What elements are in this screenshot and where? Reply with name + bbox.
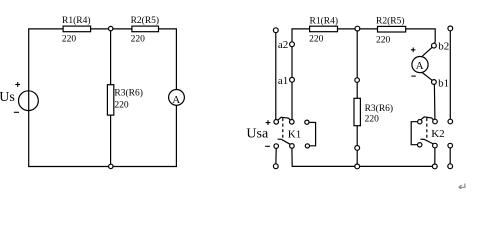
- svg-text:b2: b2: [438, 40, 449, 52]
- svg-text:R1(R4): R1(R4): [310, 15, 339, 26]
- svg-text:220: 220: [376, 36, 391, 46]
- svg-text:R3(R6): R3(R6): [114, 87, 142, 98]
- svg-text:R2(R5): R2(R5): [376, 16, 405, 27]
- svg-text:Usa: Usa: [246, 127, 269, 142]
- svg-text:a2: a2: [278, 39, 288, 51]
- svg-text:R3(R6): R3(R6): [365, 103, 394, 114]
- svg-text:220: 220: [365, 115, 380, 125]
- svg-text:K2: K2: [431, 128, 444, 140]
- svg-text:A: A: [416, 60, 424, 72]
- svg-text:a1: a1: [278, 75, 288, 87]
- svg-text:220: 220: [131, 34, 146, 44]
- svg-text:K1: K1: [288, 128, 301, 140]
- svg-text:b1: b1: [438, 78, 449, 90]
- svg-text:R1(R4): R1(R4): [62, 15, 91, 26]
- svg-text:220: 220: [114, 100, 128, 110]
- svg-text:Us: Us: [0, 90, 15, 105]
- svg-text:A: A: [172, 94, 180, 106]
- svg-text:220: 220: [62, 34, 77, 44]
- svg-text:220: 220: [309, 35, 324, 45]
- svg-text:R2(R5): R2(R5): [131, 15, 160, 26]
